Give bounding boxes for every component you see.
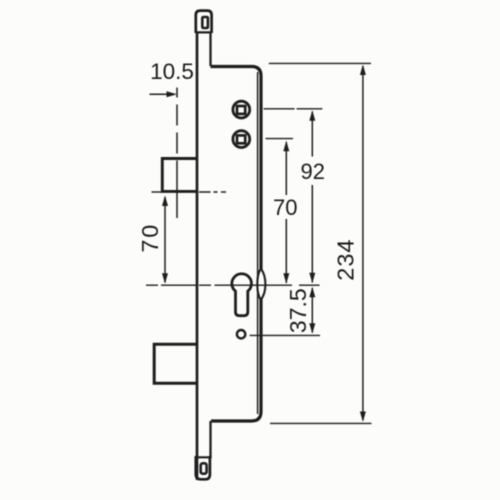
faceplate right edge upper [209,32,211,66]
dim 234 line [362,66,364,420]
handing screw hole [237,330,245,338]
handing hole extension line [250,334,320,336]
faceplate top tab [196,11,212,33]
cam bulge on case edge [257,269,265,301]
arrow 70 left bottom [162,273,168,284]
arrow 37.5 top [309,287,315,298]
case inner wall line [257,72,259,414]
spindle 2 extension line [266,138,293,140]
case top extension line [269,62,371,64]
faceplate left edge [196,32,199,480]
spindle hole circle 1 [233,101,250,118]
latch bolt [162,159,197,192]
dim 70 right line upper [285,142,287,195]
spindle hole square 2 [237,135,245,143]
dim 70 left line [164,197,166,283]
arrow 37.5 bottom [309,323,315,334]
dim 92 line lower [311,185,313,283]
lock case outline [211,67,262,422]
latch centre line vertical [176,88,178,219]
svg-text:92: 92 [300,159,324,184]
faceplate right edge lower [209,421,211,457]
arrow 234 bottom [360,412,366,423]
dim 37.5 line [311,288,313,333]
svg-text:234: 234 [333,238,359,280]
faceplate top cap divider [196,31,212,33]
arrow 70 right top [283,141,289,152]
arrow 92 bottom [309,273,315,284]
svg-text:37.5: 37.5 [285,288,311,333]
dim 10.5 arrow line [150,93,173,95]
dim 70 right line lower [285,219,287,283]
arrow 92 top [309,110,315,121]
arrow 10.5 right [167,91,178,97]
svg-text:10.5: 10.5 [150,59,194,84]
latch bottom extension line left [152,191,163,193]
arrow 70 left top [162,196,168,207]
arrow 70 right bottom [283,273,289,284]
latch bottom extension line right [199,191,226,193]
spindle 1 extension line [264,108,323,110]
dead bolt [154,344,197,383]
case bottom extension line [270,422,372,424]
svg-text:70: 70 [273,195,297,220]
dim 92 line upper [311,112,313,157]
faceplate bottom cap divider [196,456,212,458]
cylinder centre line [146,284,320,286]
spindle hole circle 2 [233,131,250,148]
bottom screw slot [201,463,207,473]
top screw hole [202,17,208,28]
svg-text:70: 70 [137,223,163,253]
faceplate bottom tab [196,456,210,479]
spindle hole square 1 [237,106,245,114]
euro cylinder hole [232,274,252,316]
arrow 234 top [360,65,366,76]
